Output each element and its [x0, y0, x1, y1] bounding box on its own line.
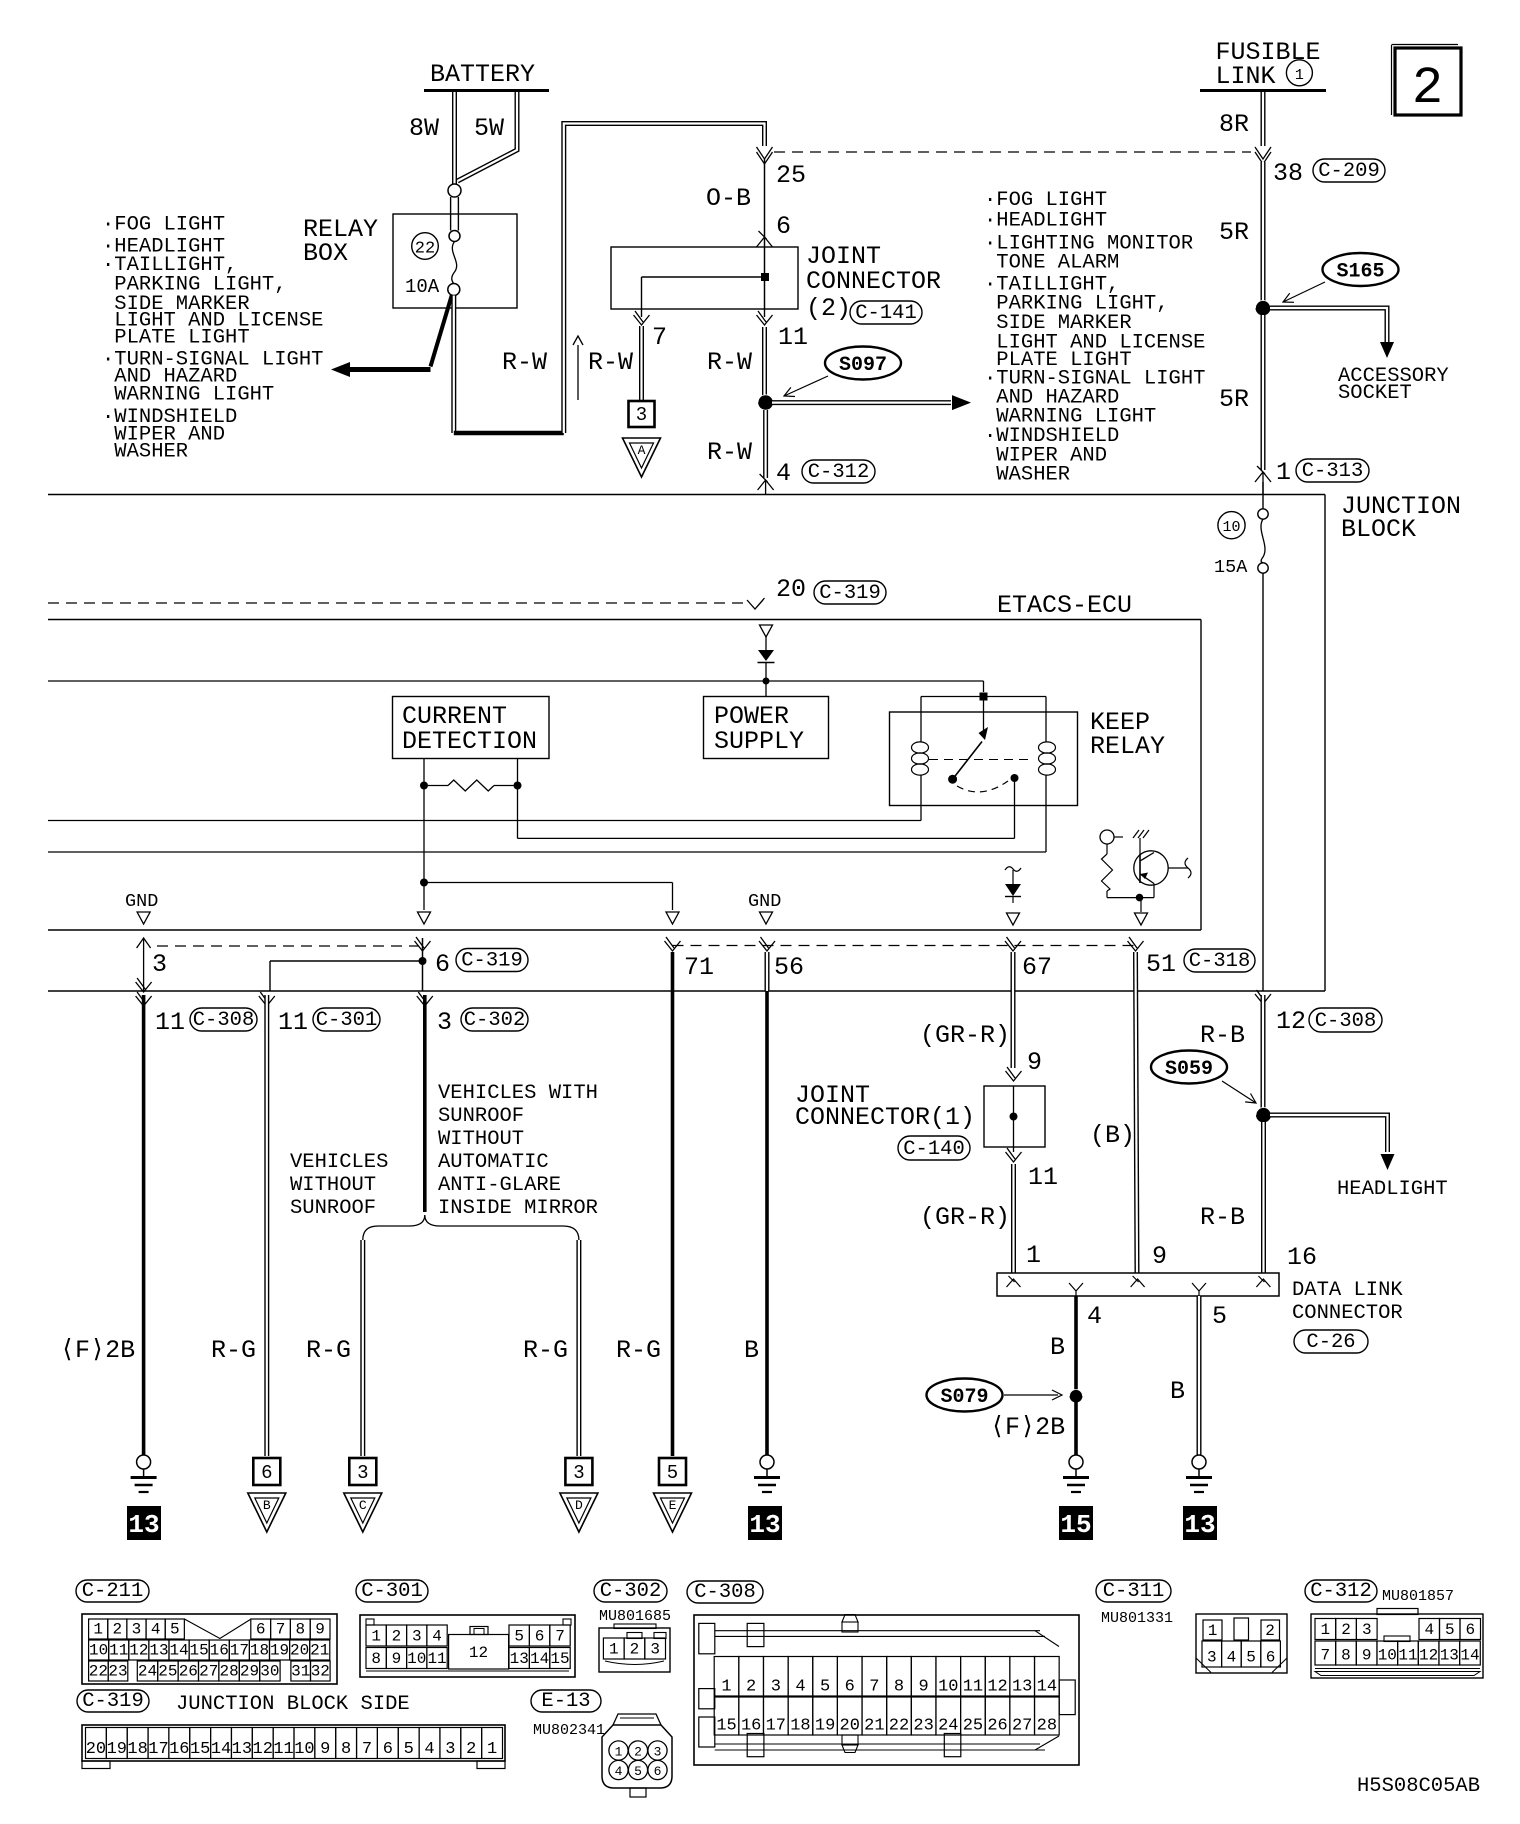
svg-text:27: 27 [1012, 1717, 1032, 1736]
wire accessory socket branch [1270, 308, 1387, 342]
svg-text:7: 7 [869, 1678, 879, 1697]
wire fuse to C-308 pin 12 [1262, 573, 1264, 991]
svg-text:B: B [1050, 1333, 1065, 1362]
svg-text:H5S08C05AB: H5S08C05AB [1357, 1775, 1480, 1798]
svg-text:R-G: R-G [616, 1336, 661, 1365]
svg-text:3: 3 [132, 1621, 142, 1639]
intermediate connector 3 box C [349, 1458, 376, 1485]
triangle B destination [248, 1493, 286, 1532]
svg-text:23: 23 [108, 1663, 127, 1681]
svg-text:4: 4 [1424, 1621, 1434, 1639]
ETACS-ECU box bottom [48, 929, 1201, 931]
svg-text:15: 15 [190, 1740, 210, 1759]
svg-text:11: 11 [155, 1008, 185, 1037]
svg-text:PLATE LIGHT: PLATE LIGHT [102, 327, 250, 350]
ecu pin 51 C-318 [1128, 937, 1144, 951]
svg-text:25: 25 [158, 1663, 177, 1681]
svg-text:14: 14 [1037, 1678, 1057, 1697]
svg-text:17: 17 [148, 1740, 168, 1759]
wire to pin 4 C-312 [763, 410, 768, 478]
svg-text:7: 7 [362, 1740, 372, 1759]
svg-text:17: 17 [766, 1717, 786, 1736]
triangle D destination [560, 1493, 598, 1532]
svg-text:R-G: R-G [306, 1336, 351, 1365]
ecu transistor circuit [1100, 830, 1114, 844]
svg-text:6: 6 [383, 1740, 393, 1759]
svg-text:1: 1 [1276, 458, 1291, 487]
connector view C-312 [1305, 1580, 1377, 1602]
svg-text:INSIDE MIRROR: INSIDE MIRROR [438, 1197, 598, 1220]
connector view C-301 [356, 1580, 428, 1602]
svg-text:3: 3 [650, 1641, 660, 1659]
relay box outline [393, 214, 517, 308]
svg-text:C-308: C-308 [193, 1009, 255, 1032]
svg-text:C-209: C-209 [1318, 160, 1380, 183]
ecu pin 67 [1005, 937, 1021, 951]
svg-text:15: 15 [1060, 1510, 1091, 1540]
svg-text:TONE ALARM: TONE ALARM [984, 252, 1119, 275]
joint connector (2) box C-141 [611, 247, 798, 309]
svg-text:R-W: R-W [707, 348, 752, 377]
ground G2 [760, 1455, 774, 1469]
svg-text:30: 30 [260, 1663, 279, 1681]
svg-text:13: 13 [1184, 1510, 1215, 1540]
svg-text:9: 9 [392, 1650, 402, 1668]
svg-text:AUTOMATIC: AUTOMATIC [438, 1151, 549, 1174]
svg-text:8W: 8W [409, 114, 439, 143]
ground G4 [1192, 1455, 1206, 1469]
svg-text:31: 31 [291, 1663, 310, 1681]
svg-text:23: 23 [913, 1717, 933, 1736]
keep relay dashed axis [929, 759, 1034, 761]
svg-text:C-301: C-301 [316, 1009, 378, 1032]
page number 2 box [1395, 48, 1461, 115]
triangle E destination [654, 1493, 692, 1532]
svg-text:(GR-R): (GR-R) [920, 1021, 1010, 1050]
svg-text:13: 13 [128, 1510, 159, 1540]
wire pin 20 dashed C-319 [48, 602, 750, 604]
svg-text:4: 4 [1087, 1302, 1102, 1331]
svg-text:9: 9 [919, 1678, 929, 1697]
wire pin 7 to intermediate connector 3 [641, 309, 643, 317]
svg-text:C-319: C-319 [819, 582, 881, 605]
svg-text:15: 15 [190, 1642, 209, 1660]
svg-text:4: 4 [424, 1740, 434, 1759]
ecu internal wire right coil return [48, 851, 1046, 853]
svg-text:51: 51 [1146, 950, 1176, 979]
svg-text:19: 19 [107, 1740, 127, 1759]
wire pin 71 R-G to connector 5 [671, 952, 675, 1456]
svg-text:9: 9 [1027, 1048, 1042, 1077]
svg-text:4: 4 [432, 1628, 442, 1646]
svg-text:(GR-R): (GR-R) [920, 1203, 1010, 1232]
svg-text:4: 4 [151, 1621, 161, 1639]
svg-text:11: 11 [427, 1650, 446, 1668]
svg-text:6: 6 [535, 1628, 545, 1646]
splice S079 [927, 1379, 1003, 1412]
page tag 13 right [1183, 1506, 1217, 1540]
svg-text:⟨F⟩2B: ⟨F⟩2B [60, 1336, 135, 1365]
keep relay armature [983, 701, 985, 737]
svg-text:6: 6 [1465, 1621, 1475, 1639]
svg-text:2: 2 [634, 1745, 642, 1760]
svg-text:6: 6 [435, 950, 450, 979]
svg-text:14: 14 [169, 1642, 188, 1660]
svg-text:9: 9 [1152, 1242, 1167, 1271]
svg-text:C-319: C-319 [82, 1690, 144, 1713]
svg-text:B: B [1170, 1377, 1185, 1406]
svg-text:GND: GND [748, 891, 781, 912]
svg-text:10: 10 [1378, 1647, 1397, 1665]
svg-text:3: 3 [412, 1628, 422, 1646]
svg-text:12: 12 [253, 1740, 273, 1759]
svg-text:DETECTION: DETECTION [402, 727, 537, 756]
keep relay right coil [1045, 697, 1047, 743]
svg-text:20: 20 [86, 1740, 106, 1759]
wire R-G to connector 6 [264, 995, 269, 1456]
svg-text:10A: 10A [405, 276, 440, 298]
triangle A destination [623, 438, 661, 477]
svg-text:1: 1 [93, 1621, 103, 1639]
svg-text:6: 6 [256, 1621, 266, 1639]
svg-text:C-301: C-301 [361, 1580, 423, 1603]
svg-text:8R: 8R [1219, 110, 1249, 139]
svg-text:12: 12 [1276, 1007, 1306, 1036]
svg-text:5: 5 [667, 1462, 678, 1484]
svg-text:D: D [575, 1498, 583, 1513]
wire current detection to ground pins [423, 786, 425, 911]
svg-text:7: 7 [276, 1621, 286, 1639]
svg-text:B: B [263, 1498, 271, 1513]
wire splice to data link pin 16 [1261, 1122, 1266, 1273]
svg-text:SOCKET: SOCKET [1338, 382, 1412, 405]
wire F 2B ground leftmost [142, 995, 146, 1455]
svg-text:C-318: C-318 [1189, 950, 1251, 973]
svg-text:7: 7 [555, 1628, 565, 1646]
svg-text:2: 2 [392, 1628, 402, 1646]
page tag 13 mid [748, 1506, 782, 1540]
svg-text:ETACS-ECU: ETACS-ECU [997, 591, 1132, 620]
current detection resistor [423, 759, 425, 786]
svg-text:56: 56 [774, 953, 804, 982]
svg-text:1: 1 [1295, 67, 1304, 84]
svg-text:5: 5 [1212, 1302, 1227, 1331]
svg-text:6: 6 [654, 1764, 662, 1779]
svg-text:MU801857: MU801857 [1382, 1588, 1454, 1605]
wire 5W from battery [458, 92, 518, 181]
svg-text:22: 22 [889, 1717, 909, 1736]
svg-text:C-312: C-312 [808, 461, 870, 484]
svg-text:WITHOUT: WITHOUT [438, 1128, 524, 1151]
svg-text:11: 11 [1028, 1163, 1058, 1192]
splice S165 [1323, 253, 1399, 286]
wire 8W from battery [452, 92, 457, 184]
svg-text:2: 2 [1412, 59, 1443, 118]
svg-text:VEHICLES: VEHICLES [290, 1151, 388, 1174]
svg-text:CONNECTOR(1): CONNECTOR(1) [795, 1103, 975, 1132]
svg-text:E: E [669, 1498, 677, 1513]
svg-text:1: 1 [721, 1678, 731, 1697]
ecu pin 56 [759, 937, 775, 951]
svg-text:10: 10 [294, 1740, 314, 1759]
svg-text:3: 3 [437, 1008, 452, 1037]
svg-text:R-W: R-W [707, 438, 752, 467]
keep relay contact output wire [1014, 778, 1016, 838]
svg-text:1: 1 [615, 1745, 623, 1760]
jb pin 11 C-301 [259, 992, 275, 1006]
transistor Q1 [1134, 851, 1168, 885]
svg-text:24: 24 [938, 1717, 958, 1736]
arrow to turn-signal / wiper loads [431, 295, 453, 367]
connector view E-13 [531, 1690, 601, 1712]
intermediate connector 5 box [659, 1458, 686, 1485]
jb pin 11 C-308 [136, 992, 152, 1006]
dashed tie line pin25 to pin38 [774, 151, 1251, 153]
svg-text:2: 2 [466, 1740, 476, 1759]
svg-text:WASHER: WASHER [984, 464, 1070, 487]
transistor chassis mark [1133, 830, 1149, 838]
svg-text:9: 9 [1362, 1647, 1372, 1665]
svg-text:13: 13 [149, 1642, 168, 1660]
svg-text:JUNCTION BLOCK SIDE: JUNCTION BLOCK SIDE [176, 1693, 410, 1716]
svg-text:8: 8 [894, 1678, 904, 1697]
svg-text:27: 27 [199, 1663, 218, 1681]
svg-text:5: 5 [404, 1740, 414, 1759]
svg-text:LINK: LINK [1216, 62, 1276, 91]
svg-text:25: 25 [963, 1717, 983, 1736]
svg-text:12: 12 [129, 1642, 148, 1660]
fuse 22 10A in relay box [412, 233, 439, 260]
svg-text:12: 12 [1419, 1647, 1438, 1665]
fusible link symbol in relay feed [448, 184, 461, 197]
svg-text:26: 26 [179, 1663, 198, 1681]
svg-text:1: 1 [1321, 1621, 1331, 1639]
svg-text:4: 4 [795, 1678, 805, 1697]
svg-text:A: A [638, 443, 646, 458]
wire R-G branch D [576, 1240, 581, 1456]
wire data link pin 4 B to ground [1074, 1296, 1078, 1455]
svg-text:22: 22 [415, 240, 435, 259]
svg-text:11: 11 [963, 1678, 983, 1697]
wire S097 branch arrow right [772, 400, 951, 405]
ecu pin 3 [143, 938, 145, 991]
svg-text:R-W: R-W [588, 348, 633, 377]
svg-text:29: 29 [240, 1663, 259, 1681]
svg-text:5: 5 [1246, 1649, 1256, 1667]
svg-text:16: 16 [741, 1717, 761, 1736]
ecu pin 6 C-319 [415, 937, 431, 951]
svg-text:8: 8 [341, 1740, 351, 1759]
wire headlight branch [1270, 1115, 1388, 1152]
junction block top border [48, 494, 1325, 496]
svg-text:5R: 5R [1219, 218, 1249, 247]
svg-text:10: 10 [938, 1678, 958, 1697]
svg-text:B: B [744, 1336, 759, 1365]
svg-text:(B): (B) [1090, 1121, 1135, 1150]
svg-text:10: 10 [407, 1650, 426, 1668]
svg-text:6: 6 [1266, 1649, 1276, 1667]
svg-text:28: 28 [1037, 1717, 1057, 1736]
svg-text:R-G: R-G [211, 1336, 256, 1365]
jb pin 12 C-308 right [1255, 990, 1271, 1004]
svg-text:3: 3 [771, 1678, 781, 1697]
svg-text:BOX: BOX [303, 239, 348, 268]
junction block bottom border [48, 990, 1325, 992]
svg-text:11: 11 [278, 1008, 308, 1037]
svg-text:1: 1 [487, 1740, 497, 1759]
svg-text:R-B: R-B [1200, 1021, 1245, 1050]
svg-text:2: 2 [746, 1678, 756, 1697]
svg-text:14: 14 [530, 1650, 549, 1668]
svg-text:SUPPLY: SUPPLY [714, 727, 804, 756]
wire pin 67 GR-R to joint connector 1 [1011, 952, 1016, 1068]
svg-text:SUNROOF: SUNROOF [290, 1197, 376, 1220]
svg-text:9: 9 [320, 1740, 330, 1759]
wire data link pin 5 B to ground [1197, 1296, 1202, 1456]
wire 12 to splice [1261, 995, 1266, 1108]
svg-text:20: 20 [776, 575, 806, 604]
svg-text:S097: S097 [839, 354, 887, 377]
label C-141 [850, 301, 922, 324]
svg-text:WASHER: WASHER [102, 441, 188, 464]
keep relay left coil [920, 697, 922, 743]
svg-text:13: 13 [1440, 1647, 1459, 1665]
svg-text:13: 13 [510, 1650, 529, 1668]
svg-text:3: 3 [357, 1462, 368, 1484]
wire pin 56 B to ground [765, 952, 770, 991]
svg-text:18: 18 [250, 1642, 269, 1660]
fuse 10 15A in junction block [1262, 482, 1264, 509]
svg-text:13: 13 [232, 1740, 252, 1759]
svg-text:5: 5 [634, 1764, 642, 1779]
svg-text:WARNING LIGHT: WARNING LIGHT [102, 384, 274, 407]
svg-text:19: 19 [270, 1642, 289, 1660]
svg-text:6: 6 [845, 1678, 855, 1697]
svg-text:⟨F⟩2B: ⟨F⟩2B [990, 1413, 1065, 1442]
svg-text:O-B: O-B [706, 184, 751, 213]
svg-text:5W: 5W [474, 114, 504, 143]
svg-text:16: 16 [169, 1740, 189, 1759]
svg-text:C-302: C-302 [600, 1580, 662, 1603]
svg-text:14: 14 [211, 1740, 231, 1759]
current detection box [393, 697, 550, 759]
svg-text:7: 7 [652, 323, 667, 352]
svg-text:20: 20 [840, 1717, 860, 1736]
svg-text:RELAY: RELAY [1090, 732, 1165, 761]
svg-text:1: 1 [1208, 1622, 1218, 1640]
svg-text:2: 2 [1265, 1622, 1275, 1640]
ETACS-ECU box top [48, 619, 1201, 621]
svg-text:E-13: E-13 [541, 1690, 590, 1713]
svg-text:24: 24 [138, 1663, 157, 1681]
triangle C destination [344, 1493, 382, 1532]
intermediate connector 3 box D [565, 1458, 592, 1485]
svg-text:6: 6 [261, 1462, 272, 1484]
svg-text:18: 18 [127, 1740, 147, 1759]
jb pin 3 C-302 [417, 992, 433, 1006]
ecu pin 71 [665, 937, 681, 951]
wire resistor right leg down [517, 786, 519, 839]
svg-text:9: 9 [315, 1621, 325, 1639]
joint connector (1) box C-140 [984, 1086, 1045, 1147]
svg-text:16: 16 [210, 1642, 229, 1660]
svg-text:10: 10 [1222, 519, 1240, 536]
wire battery feed to pin 25 O-B [451, 296, 456, 434]
svg-text:11: 11 [109, 1642, 128, 1660]
svg-text:MU801331: MU801331 [1101, 1610, 1173, 1627]
wire joint connector pin 6 to 11 vertical [764, 159, 766, 247]
svg-text:C-141: C-141 [855, 302, 917, 325]
svg-text:18: 18 [790, 1717, 810, 1736]
svg-text:MU802341: MU802341 [533, 1722, 605, 1739]
svg-text:6: 6 [776, 212, 791, 241]
svg-text:19: 19 [815, 1717, 835, 1736]
ecu input triangle and diode [760, 625, 773, 637]
connector view C-302 [594, 1580, 667, 1602]
svg-text:5: 5 [514, 1628, 524, 1646]
wire 8R fusible link down [1261, 92, 1266, 146]
svg-text:C-312: C-312 [1310, 1580, 1372, 1603]
svg-text:S165: S165 [1336, 261, 1384, 284]
svg-text:HEADLIGHT: HEADLIGHT [1337, 1178, 1448, 1201]
svg-text:12: 12 [987, 1678, 1007, 1697]
splice S059 [1151, 1051, 1227, 1084]
svg-text:15: 15 [550, 1650, 569, 1668]
svg-text:25: 25 [776, 161, 806, 190]
svg-text:C-211: C-211 [82, 1580, 144, 1603]
svg-text:GND: GND [125, 891, 158, 912]
page tag 15 [1059, 1506, 1093, 1540]
svg-text:21: 21 [864, 1717, 884, 1736]
svg-text:28: 28 [219, 1663, 238, 1681]
svg-text:4: 4 [615, 1764, 623, 1779]
ecu internal wire left coil return [48, 820, 921, 822]
svg-text:VEHICLES WITH: VEHICLES WITH [438, 1082, 598, 1105]
svg-text:5: 5 [1445, 1621, 1455, 1639]
svg-text:15: 15 [716, 1717, 736, 1736]
svg-text:32: 32 [311, 1663, 330, 1681]
svg-text:DATA LINK: DATA LINK [1292, 1279, 1403, 1302]
svg-text:11: 11 [1398, 1647, 1417, 1665]
svg-text:MU801685: MU801685 [599, 1608, 671, 1625]
svg-text:S059: S059 [1165, 1058, 1213, 1081]
wire 5R to splice S165 [1261, 162, 1266, 301]
connector view C-211 [76, 1580, 149, 1602]
svg-text:R-G: R-G [523, 1336, 568, 1365]
svg-text:3: 3 [445, 1740, 455, 1759]
svg-text:11: 11 [273, 1740, 293, 1759]
svg-text:38: 38 [1273, 159, 1303, 188]
page tag 13 left [127, 1506, 161, 1540]
svg-text:CONNECTOR: CONNECTOR [1292, 1302, 1403, 1325]
svg-text:C-313: C-313 [1302, 460, 1364, 483]
dashed connector line C-319 [157, 945, 419, 947]
svg-text:14: 14 [1460, 1647, 1479, 1665]
svg-text:5R: 5R [1219, 385, 1249, 414]
svg-text:C-26: C-26 [1306, 1331, 1355, 1354]
svg-text:1: 1 [1026, 1241, 1041, 1270]
svg-text:22: 22 [89, 1663, 108, 1681]
wire tap to C-301 pin [270, 960, 423, 962]
svg-text:20: 20 [290, 1642, 309, 1660]
svg-text:1: 1 [609, 1641, 619, 1659]
pin 38 arrow C-209 [1255, 147, 1271, 164]
svg-text:C: C [359, 1498, 367, 1513]
ecu zener diode to pin 67 [1005, 867, 1021, 872]
wire 5R to junction block [1261, 315, 1266, 470]
svg-text:(2): (2) [806, 294, 851, 323]
svg-text:26: 26 [987, 1717, 1007, 1736]
